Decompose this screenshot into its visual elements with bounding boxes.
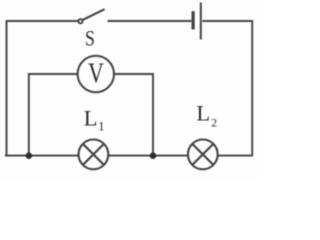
svg-text:2: 2 xyxy=(211,118,217,130)
wire switch to battery xyxy=(108,20,192,22)
svg-text:1: 1 xyxy=(98,120,104,134)
voltmeter U1 circle xyxy=(78,56,114,92)
svg-text:L: L xyxy=(196,101,210,126)
wire battery to top-right corner and right side down xyxy=(202,21,252,156)
node junction dot right xyxy=(150,152,157,159)
lamp L2 cross xyxy=(192,144,213,165)
lamp L1 cross xyxy=(83,144,104,165)
svg-text:S: S xyxy=(85,27,95,51)
wire voltmeter branch left xyxy=(29,74,78,156)
battery positive plate (long thin) xyxy=(200,3,202,40)
battery negative plate (short thick) xyxy=(192,11,195,29)
switch S blade xyxy=(83,9,105,20)
lamp L2 circle xyxy=(188,140,218,170)
wire top-left segment xyxy=(7,21,79,156)
wire voltmeter branch right xyxy=(114,74,153,156)
node junction dot left xyxy=(26,152,33,159)
svg-text:L: L xyxy=(84,106,98,131)
lamp L1 circle xyxy=(79,140,109,170)
svg-text:V: V xyxy=(88,58,104,89)
wire bottom rail xyxy=(5,155,253,157)
switch S pivot xyxy=(78,19,82,23)
